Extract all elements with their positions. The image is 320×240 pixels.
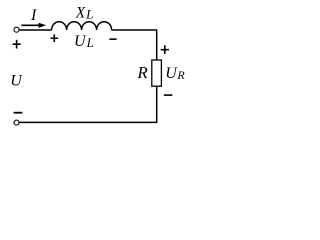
svg-text:UR: UR — [165, 65, 185, 82]
svg-text:I: I — [30, 7, 37, 24]
svg-text:U: U — [10, 73, 23, 90]
svg-text:UL: UL — [74, 33, 94, 50]
svg-text:R: R — [136, 63, 148, 82]
svg-text:XL: XL — [75, 5, 94, 22]
